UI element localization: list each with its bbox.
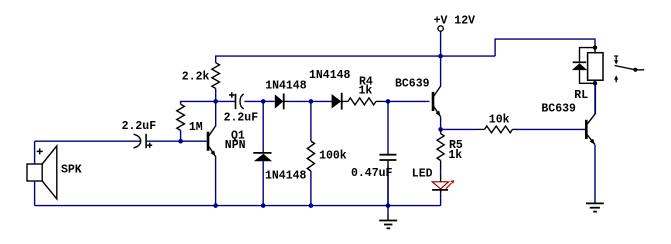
svg-text:SPK: SPK [61, 164, 82, 177]
svg-text:RL: RL [574, 89, 588, 102]
svg-text:10k: 10k [489, 114, 510, 127]
svg-text:1N4148: 1N4148 [265, 79, 307, 92]
svg-text:LED: LED [412, 168, 433, 181]
svg-text:1k: 1k [448, 149, 462, 162]
svg-text:1M: 1M [189, 121, 203, 134]
svg-text:1N4148: 1N4148 [309, 69, 351, 82]
svg-text:0.47uF: 0.47uF [351, 167, 393, 180]
svg-text:100k: 100k [319, 150, 347, 163]
svg-text:1k: 1k [359, 85, 373, 98]
svg-text:1N4148: 1N4148 [265, 169, 307, 182]
svg-text:2.2k: 2.2k [182, 71, 210, 84]
svg-text:BC639: BC639 [395, 77, 430, 90]
svg-text:BC639: BC639 [541, 102, 576, 115]
svg-text:NPN: NPN [225, 139, 246, 152]
svg-text:2.2uF: 2.2uF [224, 112, 259, 125]
svg-text:2.2uF: 2.2uF [122, 120, 157, 133]
